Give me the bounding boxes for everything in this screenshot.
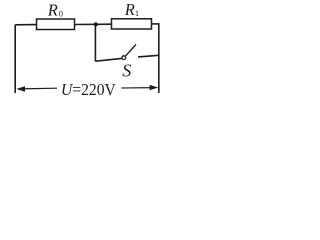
svg-text:1: 1	[135, 8, 139, 18]
svg-text:R: R	[124, 0, 135, 19]
svg-text:S: S	[122, 60, 131, 80]
svg-text:0: 0	[59, 8, 63, 18]
svg-text:U=220V: U=220V	[61, 79, 116, 99]
svg-text:R: R	[47, 1, 58, 20]
